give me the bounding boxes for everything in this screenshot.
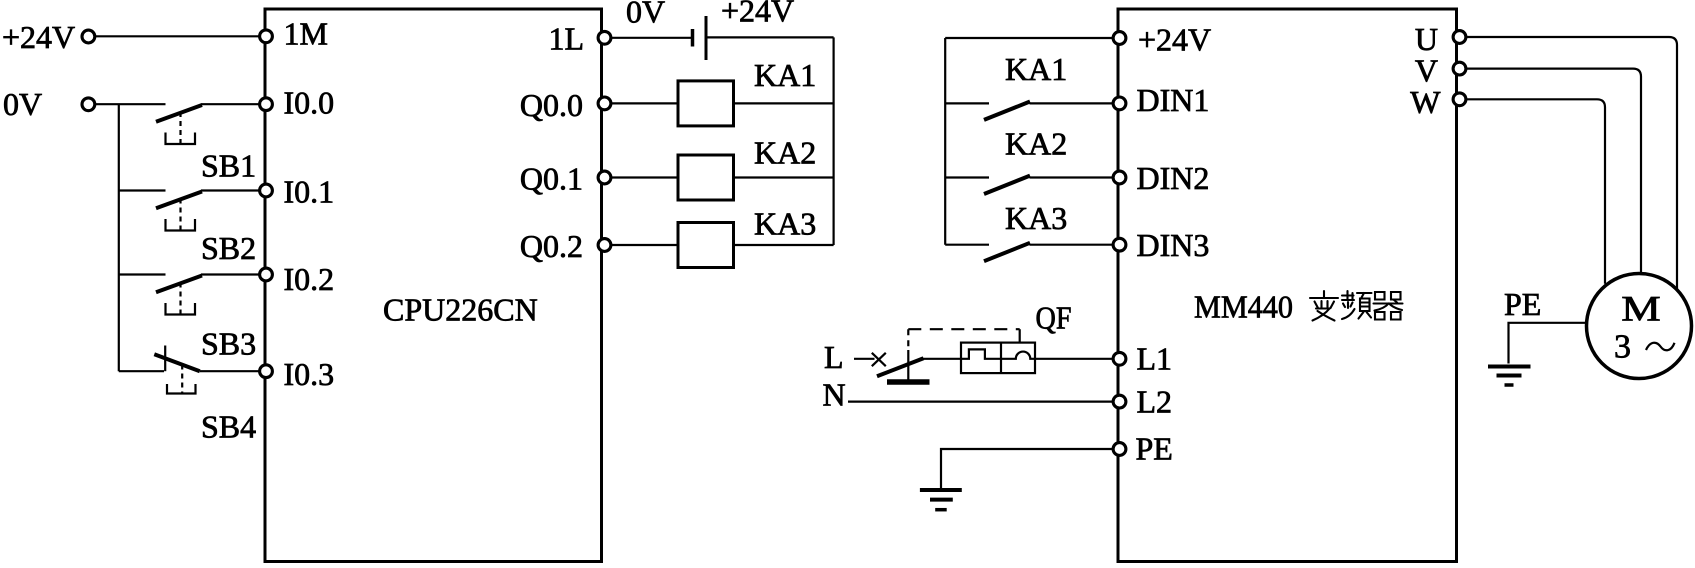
relay coil KA2 [678,155,734,200]
svg-text:KA3: KA3 [1005,200,1067,236]
breaker QF mechanism bar [887,379,930,385]
svg-text:QF: QF [1036,300,1072,336]
svg-text:Q0.2: Q0.2 [520,228,583,264]
svg-text:KA3: KA3 [754,206,816,242]
svg-text:DIN2: DIN2 [1137,160,1210,196]
breaker QF actuator stem [907,329,909,379]
wire left rail [118,104,120,371]
wire coil rail [832,37,834,245]
wire N to L2 [848,401,1118,403]
pin 1L terminal [598,31,611,44]
svg-text:W: W [1410,84,1441,120]
svg-text:KA1: KA1 [754,57,816,93]
ground (motor PE) [1488,367,1531,386]
pushbutton SB3 (NO) [156,275,265,362]
breaker QF trip unit box [961,343,1035,374]
wire rail to +24V DIN supply [945,37,1118,39]
svg-text:3: 3 [1614,329,1631,366]
battery G (0V / +24V) [626,0,794,60]
wire branch I0.2 [119,273,166,275]
svg-text:SB4: SB4 [201,409,256,445]
wire contact rail [944,38,946,245]
svg-text:I0.0: I0.0 [284,85,335,121]
breaker QF link drop [1019,329,1021,342]
pin V [1453,62,1466,75]
svg-text:+24V: +24V [721,0,794,29]
terminal +24V (left) [82,30,95,43]
svg-text:I0.3: I0.3 [284,356,335,392]
svg-text:DIN1: DIN1 [1137,82,1210,118]
svg-text:Q0.1: Q0.1 [520,161,583,197]
pin I0.1 [260,184,273,197]
svg-text:KA2: KA2 [1005,126,1067,162]
ground (mains PE) [920,490,962,510]
svg-text:M: M [1621,289,1661,329]
pin W [1453,93,1466,106]
hanzi 器 [1374,292,1403,320]
svg-text:+24V: +24V [2,19,75,55]
wire KA3 coil to rail [734,244,834,246]
wire W phase [1457,99,1606,283]
wire Q0.2 to KA3 coil [605,244,679,246]
wire battery to coil rail [706,36,834,38]
relay coil KA1 [678,81,734,126]
breaker QF contact cross [872,353,886,366]
breaker QF blade [877,358,924,376]
pin DIN3 [1113,238,1126,251]
wire L lead [854,358,875,360]
breaker QF link (dashed) [908,328,1019,330]
wire Q0.0 to KA1 coil [605,102,679,104]
PLC block CPU226CN [265,9,602,562]
contact KA3 (NO) [945,200,1118,261]
wire U phase [1457,37,1678,289]
wire PE to ground [941,449,1118,488]
pin DIN2 [1113,171,1126,184]
hanzi 变 [1310,291,1338,321]
breaker QF trip unit divider [1000,343,1002,374]
pin Q0.0 [598,97,611,110]
pushbutton SB1 (NO) [156,104,265,183]
wire 1L to battery [605,37,693,39]
wire KA2 coil to rail [734,176,834,178]
wire motor PE [1509,323,1587,364]
pin 1M [260,30,273,43]
pin Q0.2 [598,239,611,252]
pin PE [1113,443,1126,456]
svg-text:I0.1: I0.1 [284,174,335,210]
wire branch I0.3 [119,370,164,372]
svg-text:PE: PE [1504,286,1541,322]
wire Q0.1 to KA2 coil [605,176,679,178]
wire KA1 coil to rail [734,102,834,104]
svg-text:KA1: KA1 [1005,51,1067,87]
pin I0.3 [260,365,273,378]
svg-text:DIN3: DIN3 [1137,227,1210,263]
svg-text:0V: 0V [3,86,42,122]
svg-text:SB3: SB3 [201,326,256,362]
svg-text:CPU226CN: CPU226CN [383,292,538,328]
inverter block MM440 [1118,9,1457,562]
svg-text:L2: L2 [1137,384,1173,420]
contact KA2 (NO) [945,126,1118,195]
contact KA1 (NO) [945,51,1118,120]
pin DIN1 [1113,97,1126,110]
svg-text:I0.2: I0.2 [284,261,335,297]
pushbutton SB4 (NC) [154,346,265,445]
svg-text:Q0.0: Q0.0 [520,87,583,123]
pin L1 [1113,352,1126,365]
pin L2 [1113,395,1126,408]
pin Q0.1 [598,171,611,184]
terminal 0V (left) [82,98,95,111]
svg-text:+24V: +24V [1138,22,1211,58]
wire 0V feeder [96,103,166,105]
svg-text:1M: 1M [284,16,328,52]
svg-text:1L: 1L [548,21,584,57]
svg-text:SB2: SB2 [201,230,256,266]
svg-text:MM440: MM440 [1194,289,1293,325]
relay coil KA3 [678,223,734,268]
pin U [1453,31,1466,44]
svg-text:L: L [824,339,844,375]
pin I0.2 [260,268,273,281]
svg-text:L1: L1 [1137,341,1173,377]
pin I0.0 [260,98,273,111]
svg-text:SB1: SB1 [201,148,256,184]
wire V phase [1457,69,1642,273]
pin +24V (MM440) [1113,32,1126,45]
svg-text:0V: 0V [626,0,665,30]
svg-text:N: N [823,377,846,413]
motor M 3~ [1587,274,1692,379]
svg-text:KA2: KA2 [754,135,816,171]
hanzi 频 [1342,291,1372,319]
wire L1 through trip elements [920,349,1118,358]
wire +24V to 1M [96,35,265,37]
svg-text:PE: PE [1136,431,1173,467]
wire branch I0.1 [119,189,166,191]
pushbutton SB2 (NO) [156,191,265,267]
